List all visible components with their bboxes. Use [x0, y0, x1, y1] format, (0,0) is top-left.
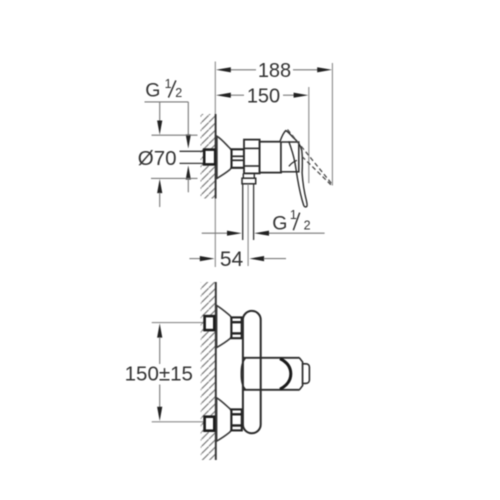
- svg-text:G: G: [272, 213, 287, 235]
- top nut (front): [231, 317, 241, 338]
- 150 right extension line: [308, 87, 310, 183]
- bottom supply extension line: [152, 421, 204, 423]
- svg-text:1: 1: [165, 77, 172, 91]
- dashed lever swing line A (top edge of raised lever): [288, 130, 334, 186]
- 54 dimension: [189, 258, 200, 260]
- lever dome cap: [280, 131, 293, 142]
- top supply extension line: [152, 322, 204, 324]
- wall hatch band (bottom figure): [201, 282, 216, 460]
- G 1/2 up arrow below pipe stub: [186, 165, 191, 179]
- outlet pipe: [242, 184, 244, 240]
- G 1/2 leader drop with down arrow (points at pipe stub top): [187, 102, 189, 135]
- svg-text:54: 54: [220, 248, 244, 271]
- diameter 70 top extension line: [152, 134, 198, 136]
- pipe stub through wall: [180, 150, 205, 152]
- outlet pipe centerline: [247, 184, 249, 266]
- svg-text:1: 1: [290, 208, 297, 222]
- body right section (rect C): [281, 142, 299, 172]
- 150 +/- 15 dimension line with arrows: [157, 323, 162, 337]
- outlet step: [242, 173, 244, 178]
- escutcheon cone (side view): [217, 136, 231, 178]
- G 1/2 underline leader: [145, 101, 189, 103]
- svg-text:Ø70: Ø70: [138, 147, 177, 170]
- cartridge housing (rect B): [260, 142, 281, 173]
- G 1/2 lower dimension (outlet thread) left arrow: [202, 232, 227, 234]
- lever inner arc mark: [289, 160, 297, 166]
- valve body block (rect A): [244, 140, 260, 174]
- wall hatch band (top figure): [201, 114, 216, 199]
- wall surface line (bottom figure): [215, 282, 217, 460]
- wall extension line above (to 188/150 dims): [214, 62, 216, 115]
- svg-text:G: G: [145, 80, 160, 102]
- svg-text:188: 188: [258, 60, 291, 82]
- mixer body stadium (front): [243, 311, 261, 433]
- wall surface line (top figure): [215, 114, 217, 199]
- top escutcheon cone (front): [217, 305, 232, 347]
- handle end cap: [303, 364, 310, 384]
- lever blade seen end-on (thick D arc): [280, 359, 291, 390]
- lever blade: [289, 137, 307, 207]
- bottom square fitting: [205, 417, 215, 431]
- svg-text:150: 150: [247, 85, 280, 107]
- square inlet fitting on wall: [204, 150, 215, 165]
- 150 dimension line: [231, 94, 245, 96]
- diameter 70 outside arrow bottom: [157, 179, 162, 193]
- outlet flange: [242, 178, 256, 184]
- bottom escutcheon cone (front): [217, 398, 232, 441]
- bottom nut (front): [231, 409, 241, 430]
- handle horizontal lines across body: [244, 357, 300, 359]
- handle knob end trapezoid: [299, 358, 302, 390]
- 188 right extension line: [331, 63, 333, 186]
- wall line below hatch: [214, 199, 216, 268]
- G 1/2 lower dimension right arrow and leader: [254, 231, 269, 236]
- 188 dimension line: [231, 69, 257, 71]
- svg-text:2: 2: [175, 86, 182, 100]
- diameter 70 outside arrow top: [159, 102, 161, 122]
- connection nut (side view): [232, 149, 245, 168]
- svg-text:2: 2: [304, 219, 311, 233]
- handle escutcheon bulge arc (left of body): [241, 358, 246, 390]
- diameter 70 bottom extension line: [151, 177, 198, 179]
- dashed lever swing line B (bottom edge of raised lever): [302, 157, 332, 186]
- svg-text:150±15: 150±15: [125, 363, 193, 386]
- top square fitting: [205, 316, 215, 330]
